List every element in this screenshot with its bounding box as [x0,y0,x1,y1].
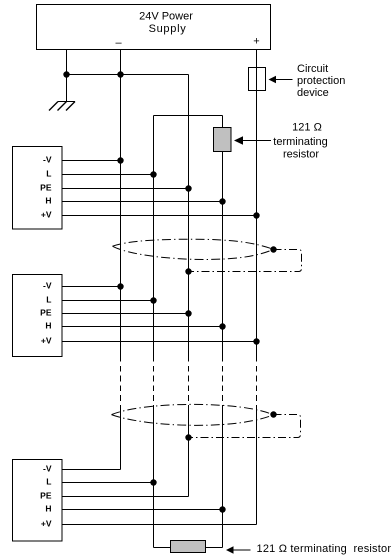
wire: L bus (C) top solid [153,116,155,357]
svg-text:-V: -V [43,155,52,165]
node: device2 -V / minus bus [117,283,123,289]
node: shield 1 to PE bus [185,268,191,274]
svg-text:terminating: terminating [273,136,327,148]
wire: device 3 PE row [62,496,189,498]
node: device2 L / L bus [150,297,156,303]
wire: device 1 H row [62,201,223,203]
svg-text:–: – [115,37,122,49]
svg-text:H: H [45,321,51,331]
wire: device 2 H row [62,326,223,328]
wire: bottom resistor row [154,547,223,549]
label 24V Power Supply [139,11,193,36]
24V power supply box [37,5,271,50]
wire: plus bus (F) bottom solid [256,406,258,525]
node: device3 L / L bus [150,479,156,485]
terminating resistor R2 (bottom, 121 ohm) [171,541,206,553]
wire: device 1 +V row [62,215,257,217]
wire: device 1 PE row [62,188,189,190]
wire: device 3 H row [62,509,223,511]
device 2 box [13,275,63,357]
wire: minus bus (B) top solid [120,50,122,356]
cable shield ellipse 2 [112,404,301,437]
wire: L bus (C) dashed extension [153,356,155,406]
svg-text:L: L [46,477,51,487]
arrow to circuit protection device [269,76,293,84]
svg-text:121 Ω: 121 Ω [292,122,322,134]
svg-text:H: H [45,504,51,514]
svg-text:24V Power: 24V Power [139,11,193,23]
wire: top link between L bus and H bus [154,115,223,117]
shield 1 drain wire to PE bus [189,250,302,272]
wire: device 2 +V row [62,341,257,343]
wire: device 3 L row [62,482,154,484]
terminating resistor R1 (top, 121 ohm) [214,128,232,152]
svg-text:+V: +V [41,336,52,346]
wire: device 3 -V row [62,469,121,471]
svg-text:PE: PE [40,491,52,501]
node: shield 1 tap [270,246,276,252]
svg-text:-V: -V [43,281,52,291]
arrow to top terminating resistor [234,136,271,144]
wire: L bus (C) bottom solid [153,406,155,548]
wire: device 2 PE row [62,313,189,315]
node: device1 +V / plus bus [253,212,259,218]
svg-text:PE: PE [40,183,52,193]
circuit protection device [249,68,266,91]
wire: ground bus horizontal [67,74,189,76]
node: shield 2 to PE bus [185,434,191,440]
device 3 box [13,460,63,542]
wire: H bus (E) dashed extension [222,356,224,406]
wire: plus bus (F) dashed extension [256,356,258,406]
wire: device 3 +V row [62,524,257,526]
cable shield ellipse 1 [113,239,302,271]
node: device1 -V / minus bus [117,157,123,163]
wire: supply left output to ground bus [67,50,257,548]
device 2 terminal labels [40,281,52,346]
node: device2 +V / plus bus [253,338,259,344]
svg-text:L: L [46,169,51,179]
device 1 terminal labels [40,155,52,220]
node: device2 H / H bus [219,323,225,329]
ground (chassis) symbol [49,75,75,111]
wire: H bus (E) top solid [222,116,224,357]
svg-text:+V: +V [41,210,52,220]
svg-text:resistor: resistor [283,149,319,161]
label 121 ohm terminating resistor (top) [273,122,327,161]
svg-text:protection: protection [297,75,345,87]
svg-text:+: + [253,36,259,48]
svg-text:H: H [45,196,51,206]
wire: device 1 -V row [62,160,121,162]
svg-text:+V: +V [41,519,52,529]
node: ground bus / minus bus [117,71,123,77]
node: ground bus / left wire [63,71,69,77]
shield 2 drain wire to PE bus [189,415,301,438]
label Circuit protection device [297,63,345,99]
node: shield 2 tap [270,411,276,417]
node: device1 H / H bus [219,198,225,204]
svg-text:device: device [297,87,329,99]
wire: PE bus (D) top solid [188,75,190,357]
svg-text:PE: PE [40,308,52,318]
node: device1 PE / PE bus [185,185,191,191]
node: device3 H / H bus [219,506,225,512]
node: device2 PE / PE bus [185,310,191,316]
svg-text:Supply: Supply [149,23,187,35]
wire: PE bus (D) bottom solid [188,406,190,497]
wire: device 2 L row [62,300,154,302]
wire: plus bus (F) top solid [256,50,258,356]
svg-text:L: L [46,295,51,305]
wire: minus bus (B) bottom solid [120,406,122,470]
node: device1 L / L bus [150,171,156,177]
wire: device 1 L row [62,174,154,176]
svg-text:121 Ω terminating resistor: 121 Ω terminating resistor [257,543,392,555]
svg-text:Circuit: Circuit [297,63,328,75]
svg-text:-V: -V [43,464,52,474]
wire: minus bus (B) dashed extension [120,356,122,406]
device 3 terminal labels [40,464,52,529]
device 1 box [13,147,63,230]
wire: device 2 -V row [62,286,121,288]
wire: PE bus (D) dashed extension [188,356,190,406]
arrow to bottom terminating resistor [226,546,251,554]
wire: H bus (E) bottom solid [222,406,224,548]
